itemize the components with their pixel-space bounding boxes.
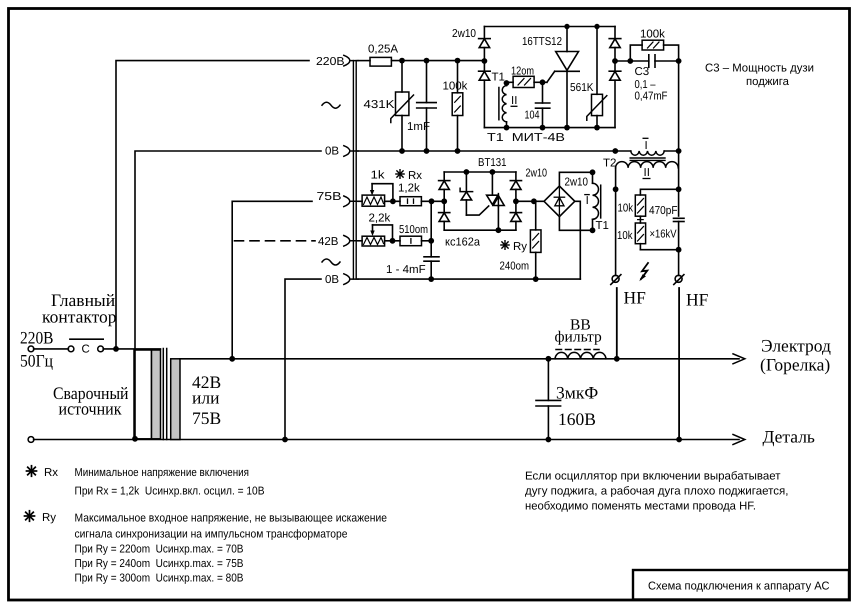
node box left 220V: [482, 58, 488, 64]
wire bridge bottom to coil: [559, 217, 592, 231]
svg-text:При Ry = 240om Uсинхр.max. =: При Ry = 240om Uсинхр.max. = 75В: [75, 558, 244, 570]
svg-text:0,25A: 0,25A: [368, 44, 398, 56]
svg-text:II: II: [511, 95, 517, 107]
transformer primary winding: [134, 350, 161, 439]
wire 75V tap: [232, 201, 312, 358]
label I bridge coil: [584, 195, 590, 207]
svg-text:1k: 1k: [371, 170, 385, 182]
note Rx asterisk: [26, 465, 38, 477]
mains terminal upper: [28, 346, 34, 352]
svg-text:кс162а: кс162а: [445, 237, 481, 249]
svg-text:510om: 510om: [399, 224, 428, 236]
wire HF left lower: [616, 288, 618, 359]
svg-text:BT131: BT131: [478, 157, 507, 169]
svg-text:контактор: контактор: [42, 307, 117, 327]
resistor Rx 1,2k: [400, 197, 444, 206]
node T1 coil top: [504, 80, 510, 86]
title block box: [633, 570, 849, 600]
svg-text:Ry: Ry: [42, 512, 56, 524]
node HF left branch: [613, 186, 619, 192]
resistor Ry 240om: [530, 201, 541, 279]
terminal 42V chevron: [344, 236, 358, 247]
svg-text:T1: T1: [596, 220, 609, 232]
svg-text:T1 МИТ-4В: T1 МИТ-4В: [487, 132, 565, 144]
node sync rail mid: [428, 238, 434, 244]
wire C3 to T2: [664, 61, 678, 151]
svg-text:431K: 431K: [364, 99, 395, 111]
diode D6 left lower: [439, 213, 450, 231]
node T2 rail: [612, 148, 618, 154]
svg-text:0В: 0В: [325, 145, 339, 157]
node T1 coil bottom: [504, 125, 510, 131]
capacitor C5 3mkF 160V: [536, 359, 561, 440]
node triac bottom: [496, 227, 502, 233]
svg-text:I: I: [645, 140, 648, 152]
wire bridge right to 0V: [575, 201, 581, 279]
node divider top: [676, 186, 682, 192]
lightning bolt: [639, 263, 648, 281]
wire divider top row: [640, 189, 678, 195]
terminal 220V chevron: [344, 55, 358, 66]
svg-text:I: I: [586, 195, 589, 207]
transformer secondary winding: [171, 359, 180, 440]
svg-text:сигнала синхронизации на импул: сигнала синхронизации на импульсном тран…: [75, 529, 348, 541]
terminal 75V chevron: [344, 196, 358, 207]
node 561K top: [594, 24, 599, 29]
wire C3 row: [615, 60, 679, 62]
resistor R3 100k parallel: [630, 40, 678, 61]
fuse F1 0,25A: [370, 57, 391, 66]
svg-text:42В: 42В: [318, 236, 339, 248]
svg-text:Схема подключения к аппарату А: Схема подключения к аппарату АС: [648, 581, 830, 593]
capacitor C3: [649, 55, 655, 67]
potentiometer R6 1k: [358, 184, 400, 207]
wire detail line: [34, 439, 739, 441]
svg-text:1mF: 1mF: [407, 121, 430, 133]
diode D1 2w10: [479, 27, 491, 62]
arrow electrode: [733, 354, 745, 364]
svg-text:160В: 160В: [558, 409, 596, 429]
svg-text:II: II: [644, 167, 650, 179]
svg-text:При Ry = 220om Uсинхр.max. =: При Ry = 220om Uсинхр.max. = 70В: [75, 544, 244, 556]
node cap 3mkF bottom: [546, 437, 552, 443]
node gate: [540, 79, 546, 85]
svg-text:Rx: Rx: [408, 170, 422, 182]
node 220V contactor junction: [113, 346, 119, 352]
BB filter core dashed: [556, 349, 599, 351]
HF terminal left: [611, 275, 621, 285]
bus double line: [353, 61, 356, 280]
svg-text:104: 104: [525, 110, 540, 122]
arrow detail: [733, 435, 745, 445]
svg-text:(Горелка): (Горелка): [760, 355, 830, 375]
svg-text:HF: HF: [624, 288, 647, 308]
resistor R1 100k: [452, 61, 463, 151]
svg-text:T1: T1: [492, 72, 505, 84]
wire contactor to transformer: [103, 348, 160, 350]
zener VD ks162a: [460, 172, 473, 215]
svg-text:75В: 75В: [192, 408, 221, 428]
node triac top: [490, 169, 496, 175]
node HF detail junction: [676, 437, 682, 443]
thyristor V1 16TTS12: [555, 27, 580, 128]
wire 0V lower rail: [358, 278, 580, 280]
capacitor C4 470pF: [674, 218, 685, 221]
transformer core: [163, 349, 166, 440]
svg-text:Минимальное напряжение включен: Минимальное напряжение включения: [75, 467, 250, 479]
svg-text:Если осциллятор при включении: Если осциллятор при включении вырабатыва…: [525, 471, 781, 483]
wire T2 II left to HF: [615, 168, 617, 276]
node zener top: [464, 169, 470, 175]
wire zener to gate: [466, 206, 488, 215]
node Ry branch: [531, 198, 537, 204]
node 1-4mF bottom: [428, 276, 434, 282]
node 75V secondary junction: [229, 356, 235, 362]
node T1 coil I bottom: [590, 227, 596, 233]
svg-text:Деталь: Деталь: [763, 427, 815, 447]
diode D5 left upper: [439, 172, 450, 213]
label Rx asterisk: [395, 169, 405, 179]
svg-text:1,2k: 1,2k: [398, 183, 420, 195]
svg-text:0В: 0В: [325, 274, 339, 286]
wire divider bottom row: [640, 249, 678, 251]
bridge 2w10 diamond: [544, 186, 575, 217]
node cap 1mF top: [424, 58, 430, 64]
wire 42V dashed: [235, 240, 316, 242]
transformer T2 winding I: [631, 151, 664, 155]
mains terminal lower: [28, 437, 34, 443]
wire 220V rail: [358, 60, 484, 62]
varistor RU1 431K: [391, 61, 414, 151]
svg-text:16TTS12: 16TTS12: [522, 36, 562, 48]
label I T2: [643, 138, 649, 152]
node box right C3: [612, 58, 618, 64]
node HF electrode junction: [614, 356, 620, 362]
svg-text:3мкФ: 3мкФ: [556, 383, 598, 403]
terminal 0V-2 chevron: [344, 274, 358, 285]
wire 0V-2 tap: [285, 279, 321, 439]
wire electrode line: [180, 358, 739, 360]
HF terminal right: [674, 275, 684, 285]
node cap 3mkF top: [546, 356, 552, 362]
svg-text:0,47mF: 0,47mF: [635, 91, 668, 103]
wire 0V tap: [135, 151, 321, 439]
transformer T1 winding II: [499, 83, 507, 128]
svg-text:C3: C3: [635, 66, 650, 78]
svg-text:При Rx = 1,2k Uсинхр.вкл. осц: При Rx = 1,2k Uсинхр.вкл. осцил. = 10В: [75, 486, 265, 498]
node varistor bottom: [399, 148, 405, 154]
svg-text:T2: T2: [603, 158, 616, 170]
node 0V primary junction: [132, 436, 138, 442]
ks162a box: [444, 172, 516, 230]
potentiometer R7 2,2k: [358, 225, 400, 246]
capacitor C6 1-4mF: [424, 257, 439, 279]
node cap 1mF bottom: [424, 148, 430, 154]
svg-text:100k: 100k: [640, 29, 665, 41]
svg-text:При Ry = 300om Uсинхр.max. =: При Ry = 300om Uсинхр.max. = 80В: [75, 573, 244, 585]
node 561K bottom: [594, 125, 600, 131]
svg-text:поджига: поджига: [746, 76, 790, 88]
node res 100k top: [455, 58, 461, 64]
svg-text:0,1 –: 0,1 –: [635, 79, 656, 91]
node res 100k bottom: [455, 148, 461, 154]
transformer T2 core: [630, 158, 665, 160]
svg-text:или: или: [192, 388, 219, 408]
node box output: [513, 198, 519, 204]
svg-text:220В: 220В: [20, 327, 54, 347]
wire mains to contactor: [34, 348, 69, 350]
svg-text:50Гц: 50Гц: [20, 350, 53, 370]
oscillator box T1 MIT-4V top: [484, 26, 615, 28]
node 1k wiper: [390, 198, 396, 204]
diode D4 right bottom: [609, 61, 621, 128]
wire to HF right: [678, 250, 680, 276]
svg-text:75В: 75В: [317, 191, 342, 203]
node thyristor top: [564, 24, 569, 29]
node C3 right: [676, 58, 682, 64]
contactor C: [68, 339, 103, 352]
node divider bottom: [676, 247, 682, 253]
svg-text:×16kV: ×16kV: [650, 229, 677, 241]
svg-text:дугу поджига, а рабочая дуга п: дугу поджига, а рабочая дуга плохо поджи…: [525, 486, 789, 498]
node Ry bottom: [533, 276, 539, 282]
svg-text:561K: 561K: [570, 82, 594, 94]
wire box to bridge: [516, 200, 544, 202]
varistor RU2 561K: [587, 27, 607, 128]
resistor R2 12om: [507, 76, 547, 87]
resistor R8 510om: [400, 236, 431, 246]
capacitor C1 1mF: [417, 61, 437, 151]
svg-text:необходимо поменять местами пр: необходимо поменять местами провода HF.: [525, 501, 756, 513]
svg-text:фильтр: фильтр: [555, 329, 603, 346]
node cap 104 bottom: [540, 125, 546, 131]
node 2,2k wiper: [390, 238, 396, 244]
svg-text:2w10: 2w10: [526, 168, 548, 180]
svg-text:10k: 10k: [618, 203, 634, 215]
node sync rail top: [429, 198, 435, 204]
svg-text:Rx: Rx: [44, 467, 58, 479]
oscillator box bottom: [484, 127, 615, 129]
node C3 left: [627, 58, 633, 64]
wire T2 II right rail: [678, 151, 680, 216]
svg-text:Электрод: Электрод: [761, 336, 831, 356]
wire 220V tap: [116, 61, 309, 349]
note Ry asterisk: [24, 510, 36, 522]
node T2 right corner: [676, 148, 682, 154]
inductor BB filter: [555, 352, 606, 358]
label II winding: [511, 95, 518, 107]
node 0V-2 detail junction: [282, 437, 288, 443]
ac sign upper: [322, 102, 340, 108]
svg-text:12om: 12om: [511, 66, 534, 78]
triac BT131: [487, 172, 505, 230]
svg-text:источник: источник: [59, 398, 122, 418]
node box input: [441, 198, 447, 204]
svg-text:С3 – Мощность дузи: С3 – Мощность дузи: [705, 63, 814, 75]
label Ry asterisk: [500, 240, 510, 250]
svg-text:2w10: 2w10: [452, 28, 476, 40]
wire gate diagonal: [547, 71, 555, 82]
diode D8 right lower: [510, 213, 521, 231]
transformer T2 winding II: [616, 162, 679, 168]
svg-text:220В: 220В: [316, 56, 345, 68]
transformer T1 winding I: [593, 172, 601, 230]
svg-text:100k: 100k: [443, 81, 468, 93]
capacitor C2 104: [536, 82, 550, 127]
svg-text:10k: 10k: [617, 230, 633, 242]
diode D2: [479, 61, 491, 128]
resistor R4 10k: [635, 195, 645, 223]
node T1 coil I top: [590, 169, 596, 175]
resistor R5 10k: [635, 223, 645, 250]
svg-text:2w10: 2w10: [565, 177, 589, 189]
svg-text:240om: 240om: [500, 261, 530, 273]
svg-text:Максимальное входное напряжени: Максимальное входное напряжение, не вызы…: [75, 513, 388, 525]
node thyristor bottom: [564, 125, 570, 131]
wire 0V rail: [358, 150, 631, 152]
wire HF right lower: [678, 288, 680, 440]
wire sync rail vertical: [430, 201, 432, 256]
svg-text:1 - 4mF: 1 - 4mF: [386, 264, 426, 276]
label II T2: [643, 167, 651, 179]
wire bridge top to T1 coil: [559, 172, 592, 186]
node varistor top: [399, 58, 405, 64]
ac sign lower: [322, 259, 340, 265]
diode D7 right upper: [510, 172, 521, 213]
svg-text:Ry: Ry: [513, 241, 527, 253]
diode D3 right top: [609, 27, 621, 62]
svg-text:2,2k: 2,2k: [369, 213, 391, 225]
svg-text:HF: HF: [686, 290, 709, 310]
terminal 0V chevron: [344, 146, 358, 157]
svg-text:С: С: [82, 344, 90, 356]
svg-text:470pF: 470pF: [649, 205, 678, 217]
